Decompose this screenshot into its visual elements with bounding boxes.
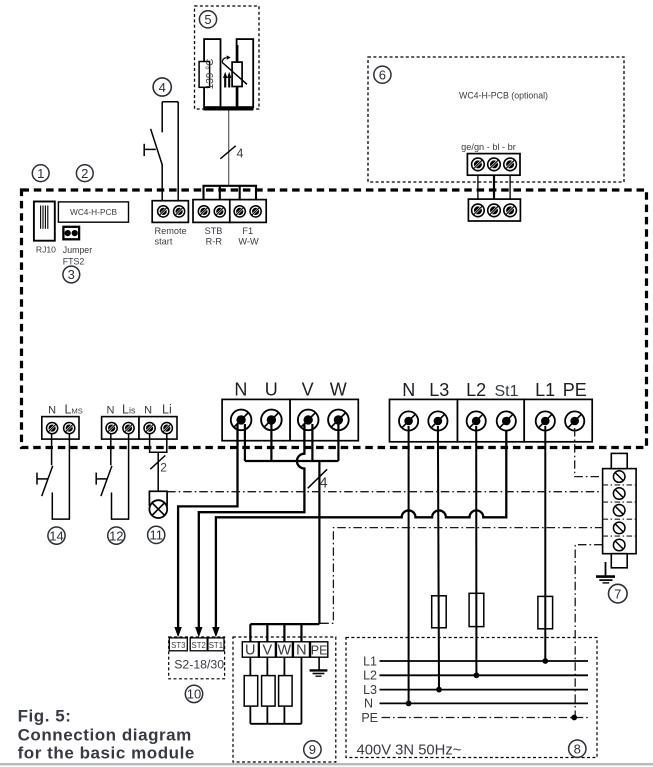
thermistor hook arrow	[222, 58, 226, 63]
divider dashdot 3	[603, 518, 637, 520]
mains box 8 dashed	[346, 638, 597, 758]
junction L1	[542, 658, 548, 664]
earth strip tab top	[611, 453, 627, 468]
svg-text:PE: PE	[361, 711, 378, 725]
svg-text:N: N	[402, 380, 415, 400]
screw F1 2	[250, 206, 261, 217]
wire L2 mains	[475, 426, 477, 675]
svg-text:L1: L1	[535, 380, 555, 400]
svg-text:PE: PE	[563, 380, 587, 400]
lamp H11	[149, 500, 167, 518]
svg-text:FTS2: FTS2	[63, 256, 85, 266]
bracket wires above STB/F1	[204, 186, 257, 204]
svg-text:6: 6	[379, 67, 386, 82]
small block N LMS	[42, 417, 79, 440]
box PE	[311, 642, 328, 657]
optional PCB box 6 dashed	[368, 57, 624, 182]
screw E4	[613, 522, 625, 534]
svg-text:Jumper: Jumper	[63, 245, 92, 255]
terminal block 6 upper	[467, 154, 520, 176]
switch S4 remote start	[162, 102, 178, 206]
screw W	[328, 410, 349, 431]
screw 6u3	[504, 158, 517, 171]
wire L1 mains	[544, 426, 546, 661]
svg-text:U: U	[265, 379, 278, 399]
screw V	[298, 410, 319, 431]
svg-text:400V 3N 50Hz~: 400V 3N 50Hz~	[357, 743, 462, 759]
junction PE	[571, 715, 577, 721]
box N	[293, 642, 309, 657]
svg-text:RJ10: RJ10	[36, 244, 56, 254]
svg-text:ST1: ST1	[209, 641, 223, 650]
box ST3	[169, 638, 187, 651]
wire count slash 4	[220, 146, 235, 159]
lamp feed wires	[150, 433, 167, 491]
wire N mains	[408, 426, 410, 703]
screw 6u2	[488, 158, 501, 171]
divider dashdot 4	[603, 535, 637, 537]
svg-text:8: 8	[574, 741, 581, 756]
node 9 callout	[304, 741, 321, 758]
box ST1	[208, 638, 224, 651]
screw PE	[565, 411, 584, 430]
node 1 callout	[32, 165, 49, 182]
screw Remote 1	[158, 206, 169, 217]
screw N2	[399, 411, 418, 430]
svg-text:N: N	[144, 404, 152, 416]
svg-text:L2: L2	[363, 669, 377, 683]
node 10 callout	[185, 685, 202, 702]
page rule	[0, 763, 653, 765]
node 2 callout	[76, 165, 93, 182]
wire N to bus	[244, 424, 246, 461]
svg-text:N: N	[107, 404, 115, 416]
drop wire to heater box	[318, 461, 320, 624]
screw L3	[428, 411, 447, 430]
earth strip tab bottom	[611, 554, 627, 568]
screw E3	[613, 505, 625, 517]
svg-text:4: 4	[237, 147, 244, 161]
fuse L3	[432, 596, 447, 628]
svg-text:PE: PE	[311, 644, 328, 658]
terminal block F1 W-W	[230, 200, 266, 223]
jumper FTS2	[63, 227, 79, 240]
node 5 callout	[199, 11, 216, 28]
screw 6l3	[504, 204, 517, 217]
svg-text:L1: L1	[363, 654, 377, 668]
bus under strip	[245, 460, 339, 462]
screw 11N	[144, 423, 155, 434]
ground symbol PE box	[318, 657, 320, 670]
wire count slash 2	[150, 455, 165, 469]
screw E2	[613, 488, 625, 500]
PE dashdot wire bottom	[575, 545, 602, 718]
heater element U	[249, 657, 251, 675]
heater element W	[283, 657, 285, 675]
terminal block Remote start	[152, 201, 188, 223]
sensor bottom bar	[203, 106, 253, 110]
svg-text:ST2: ST2	[192, 641, 206, 650]
fuse L2	[469, 593, 484, 626]
heater bottom bus	[250, 723, 301, 725]
svg-text:W: W	[278, 643, 292, 659]
junction L2	[474, 672, 480, 678]
lamp holder	[149, 491, 167, 505]
svg-text:start: start	[155, 236, 173, 246]
STB contact	[199, 62, 210, 88]
terminal strip L2 St1	[458, 399, 525, 441]
screw STB 1	[198, 206, 209, 217]
svg-text:12: 12	[109, 528, 123, 543]
screw 14L	[64, 423, 75, 434]
svg-text:14: 14	[49, 528, 63, 543]
svg-text:V: V	[262, 643, 272, 659]
terminal strip V W	[290, 399, 358, 440]
small block N Li	[139, 417, 177, 440]
fuse L1	[538, 596, 553, 628]
svg-text:2: 2	[160, 461, 167, 475]
svg-text:S2-18/30: S2-18/30	[174, 657, 224, 671]
dashdot line lamp to earth strip	[167, 491, 602, 493]
svg-text:139 °C: 139 °C	[205, 59, 216, 90]
svg-text:ST3: ST3	[171, 641, 185, 650]
svg-text:4: 4	[320, 475, 328, 491]
svg-text:Connection diagram: Connection diagram	[18, 725, 192, 744]
heater element V	[266, 657, 268, 675]
screw 6l1	[472, 204, 485, 217]
svg-text:N: N	[48, 404, 56, 416]
sensor box 5 dashed	[195, 6, 260, 109]
screw 6l2	[488, 204, 501, 217]
switch S12 wires	[111, 433, 129, 519]
arrow ST2	[195, 627, 202, 637]
node 8 callout	[569, 740, 586, 757]
svg-text:4: 4	[159, 80, 166, 95]
svg-text:11: 11	[149, 528, 163, 543]
svg-text:L3: L3	[363, 683, 377, 697]
screw 11L	[161, 423, 172, 434]
box W	[276, 642, 292, 657]
arrow ST3	[174, 627, 181, 637]
svg-text:5: 5	[204, 12, 211, 27]
wire V to ST2 with hop	[199, 424, 305, 629]
small block N Lis	[102, 417, 139, 440]
bus above heater box	[250, 624, 319, 642]
svg-text:ge/gn - bl - br: ge/gn - bl - br	[461, 142, 516, 152]
terminal strip L1 PE	[524, 399, 592, 441]
arrow ST1	[212, 627, 219, 637]
svg-text:1: 1	[37, 166, 44, 181]
screw L1	[536, 411, 555, 430]
wire N heater	[300, 657, 302, 724]
svg-text:L2: L2	[466, 380, 486, 400]
wires PCB to module	[477, 164, 479, 210]
svg-text:3: 3	[68, 267, 75, 282]
screw STB 2	[214, 206, 225, 217]
svg-text:WC4-H-PCB (optional): WC4-H-PCB (optional)	[459, 91, 548, 101]
screw F1 1	[234, 206, 245, 217]
junction L3	[436, 687, 442, 693]
svg-text:N: N	[296, 643, 306, 659]
main module dashed border	[22, 190, 647, 448]
connector RJ10	[34, 202, 55, 241]
ground symbol strip7	[605, 562, 607, 576]
screw 12L	[123, 423, 134, 434]
sensor lead top	[236, 45, 238, 62]
wire L3 mains	[438, 426, 439, 690]
svg-text:for the basic module: for the basic module	[18, 744, 195, 763]
node 12 callout	[108, 527, 125, 544]
divider dashdot 2	[603, 501, 637, 503]
svg-text:V: V	[302, 379, 314, 399]
node 6 callout	[374, 66, 391, 83]
svg-text:W: W	[330, 379, 347, 399]
screw 12N	[106, 423, 117, 434]
svg-text:9: 9	[309, 742, 316, 757]
wire St1 to ST1 with hops	[216, 430, 506, 629]
box ST2	[190, 638, 207, 651]
svg-text:Fig. 5:: Fig. 5:	[18, 707, 72, 726]
screw E1	[613, 471, 625, 483]
switch S12 blade	[101, 466, 112, 496]
terminal strip N U	[222, 399, 290, 440]
svg-text:2: 2	[81, 166, 88, 181]
svg-text:U: U	[245, 643, 255, 659]
earth strip 7 body	[603, 469, 637, 554]
screw St1	[497, 411, 516, 430]
sensor lead bottom	[236, 87, 238, 109]
thermistor diagonal	[222, 63, 247, 85]
node 4 callout	[153, 78, 171, 96]
wire V to bus	[311, 424, 313, 461]
wire U to bus	[270, 424, 272, 461]
node 14 callout	[48, 527, 65, 544]
screw N	[231, 410, 252, 431]
ST terminal box 10 dashed	[169, 637, 225, 679]
svg-text:W-W: W-W	[238, 236, 259, 246]
terminal strip N L3	[390, 399, 458, 441]
screw L2	[467, 411, 486, 430]
divider dashdot 1	[603, 484, 637, 486]
svg-text:F1: F1	[242, 226, 253, 236]
svg-text:Remote: Remote	[155, 226, 187, 236]
svg-text:10: 10	[187, 687, 201, 702]
terminal block 6 lower	[468, 199, 520, 221]
STB body 139C	[204, 39, 220, 107]
svg-text:7: 7	[614, 586, 621, 601]
svg-text:WC4-H-PCB: WC4-H-PCB	[70, 207, 117, 217]
node 3 callout	[63, 266, 80, 283]
wire count slash 4	[308, 469, 327, 488]
svg-text:Lis: Lis	[122, 402, 136, 416]
svg-text:L3: L3	[429, 380, 449, 400]
screw U	[261, 410, 282, 431]
PE dashdot wire top	[575, 428, 603, 477]
screw 14N	[47, 423, 58, 434]
wire sensor to terminals	[228, 111, 230, 187]
screw 6u1	[472, 158, 485, 171]
svg-text:R-R: R-R	[206, 236, 223, 246]
box V	[259, 642, 275, 657]
thermistor body	[232, 62, 242, 86]
switch S14 blade	[42, 466, 53, 496]
heat arrows	[224, 77, 226, 88]
screw Remote 2	[174, 206, 185, 217]
wire N to ST3	[178, 424, 237, 629]
svg-text:STB: STB	[205, 226, 223, 236]
svg-text:N: N	[234, 379, 247, 399]
node 7 callout	[609, 584, 628, 603]
node 11 callout	[148, 526, 165, 543]
dashdot line mid to earth strip	[320, 528, 602, 624]
terminal block STB R-R	[193, 200, 230, 223]
box U	[242, 642, 258, 657]
svg-text:Li: Li	[162, 402, 172, 416]
heater box 9 dashed	[233, 637, 336, 762]
switch S14 wires	[52, 433, 70, 519]
svg-text:N: N	[364, 697, 373, 711]
wire W to bus	[337, 424, 339, 461]
sensor body	[237, 39, 254, 107]
screw E5	[613, 539, 625, 551]
junction N	[406, 701, 412, 707]
svg-text:St1: St1	[494, 383, 518, 400]
PCB WC4-H-PCB	[58, 202, 128, 222]
